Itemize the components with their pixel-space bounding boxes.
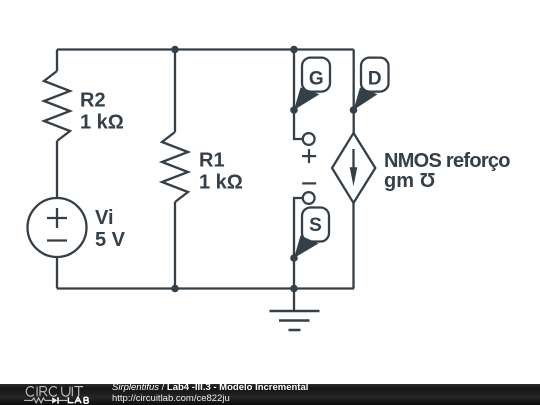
node junction dot rail/ground <box>290 285 298 293</box>
node junction dot drain flag <box>350 106 358 114</box>
svg-text:1 kΩ: 1 kΩ <box>80 112 124 134</box>
svg-text:Vi: Vi <box>95 207 114 229</box>
ground <box>293 289 295 312</box>
wire right vertical (rail to current source) <box>353 50 355 134</box>
wire gate node to terminal circle <box>294 110 303 139</box>
wire current source to bottom rail <box>352 203 354 289</box>
wire gate branch vertical <box>293 50 295 111</box>
logo word CIRCUIT <box>26 387 83 397</box>
logo diode symbol <box>52 397 57 403</box>
node junction dot rail/gate <box>290 46 298 54</box>
wire source node to bottom rail <box>293 258 295 289</box>
node junction dot gate flag <box>290 106 298 114</box>
caption line 2 <box>112 393 230 404</box>
logo resistor symbol <box>24 398 52 403</box>
caption line 1 <box>112 382 308 393</box>
wire bottom rail <box>57 287 354 289</box>
resistor R2 <box>44 71 70 141</box>
node junction dot source flag <box>290 254 298 262</box>
wire left vertical top (node A to R2) <box>56 50 58 72</box>
svg-text:R2: R2 <box>80 90 106 112</box>
node junction dot rail/R1 top <box>171 46 179 54</box>
svg-text:NMOS reforço: NMOS reforço <box>384 150 511 172</box>
node junction dot rail/R1 bottom <box>171 285 179 293</box>
svg-text:5 V: 5 V <box>95 229 126 251</box>
wire top rail <box>57 48 354 50</box>
svg-text:gm Ʊ: gm Ʊ <box>384 170 436 192</box>
voltage source Vi <box>28 198 87 257</box>
logo word LAB <box>68 397 88 403</box>
minus sign polarity <box>302 182 316 184</box>
wire middle vertical top (rail to R1) <box>174 50 176 133</box>
terminal circle - (source side) <box>303 192 315 204</box>
node flag D <box>354 58 389 110</box>
resistor R1 <box>162 132 188 202</box>
plus sign polarity <box>302 155 316 157</box>
wire R1 to bottom rail <box>174 202 176 289</box>
svg-text:1 kΩ: 1 kΩ <box>199 172 243 194</box>
terminal circle + (gate side) <box>303 133 315 145</box>
wire V source to bottom rail <box>56 257 58 289</box>
svg-text:D: D <box>368 68 382 89</box>
footer bar <box>0 384 540 405</box>
current source I1 diamond <box>332 133 375 203</box>
wire source terminal circle to node <box>294 198 303 258</box>
svg-text:S: S <box>309 215 322 236</box>
svg-text:G: G <box>309 68 324 89</box>
node flag G <box>294 58 330 110</box>
svg-text:R1: R1 <box>199 150 225 172</box>
node flag S <box>294 208 329 259</box>
logo CircuitLab <box>0 384 110 405</box>
wire R2 to V source <box>56 141 58 198</box>
